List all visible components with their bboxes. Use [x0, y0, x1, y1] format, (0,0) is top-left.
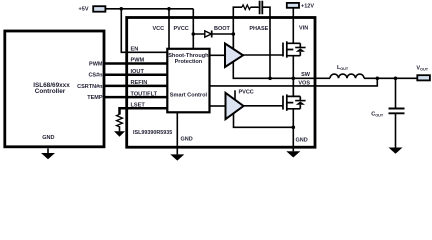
wire EN drop — [121, 9, 167, 53]
node SW junction — [292, 77, 296, 81]
wire TOUT/FLT — [104, 96, 167, 99]
wire Cout drop — [395, 78, 397, 107]
svg-text:CS#n: CS#n — [88, 73, 103, 79]
svg-text:GND: GND — [296, 138, 308, 144]
controller box ISL68/69xxx — [5, 31, 104, 147]
svg-text:OUT: OUT — [340, 67, 349, 71]
wire BOOT feed to upper driver — [232, 34, 234, 50]
wire BOOT up and bootstrap row — [233, 7, 242, 49]
transistor Q1 high-side — [283, 41, 300, 57]
wire upper driver return to SW — [233, 61, 315, 78]
wire lower driver return — [234, 114, 294, 128]
svg-text:CSRTN#n: CSRTN#n — [77, 84, 103, 90]
capacitor Cout — [389, 109, 405, 114]
svg-text:BOOT: BOOT — [214, 26, 231, 32]
diode boot — [205, 31, 212, 37]
svg-text:+5V: +5V — [79, 6, 89, 12]
svg-text:PWM: PWM — [131, 58, 145, 64]
svg-text:TEMP: TEMP — [87, 95, 103, 101]
wire LSET — [120, 108, 168, 114]
wire Lout to Vout — [364, 77, 417, 79]
resistor Rset — [117, 114, 123, 127]
wire PVCC to boot diode — [193, 33, 233, 35]
node BOOT — [232, 32, 236, 36]
svg-text:SW: SW — [301, 72, 311, 78]
svg-text:TOUT/FLT: TOUT/FLT — [131, 91, 158, 97]
svg-text:PVCC: PVCC — [174, 26, 189, 32]
wire Q2 drain to SW — [292, 78, 294, 96]
svg-text:Controller: Controller — [35, 88, 66, 95]
svg-text:+12V: +12V — [301, 4, 314, 10]
wire to gnd — [119, 126, 121, 131]
pin PVCC stub (lower driver) — [234, 90, 236, 100]
svg-text:VCC: VCC — [153, 26, 165, 32]
wire PWM — [104, 62, 167, 65]
node EN tap — [120, 7, 124, 11]
svg-text:VIN: VIN — [299, 26, 308, 32]
op-amp upper gate driver — [225, 44, 243, 68]
op-amp lower gate driver — [226, 93, 244, 119]
node PVCC-boot — [192, 32, 196, 36]
wire PVCC — [192, 9, 194, 49]
node Cout tap — [394, 77, 398, 81]
wire block to upper driver — [210, 54, 226, 56]
node PHASE-SW — [268, 77, 272, 81]
wire REFIN — [104, 85, 167, 88]
svg-text:OUT: OUT — [375, 113, 384, 117]
node VCC tap — [167, 7, 171, 11]
transistor Q2 low-side — [283, 94, 300, 110]
driver box ISL99390 — [127, 18, 315, 148]
wire +5V rail — [105, 8, 193, 10]
ground (power) — [286, 151, 300, 157]
wire block GND — [176, 112, 178, 154]
svg-text:PHASE: PHASE — [249, 26, 268, 32]
wire block to lower driver — [210, 105, 226, 107]
resistor Rboot — [242, 5, 251, 10]
wire upper gate — [243, 54, 283, 56]
diode body Q1 — [296, 48, 305, 51]
wire VOS — [210, 78, 378, 86]
svg-text:Smart Control: Smart Control — [170, 92, 208, 98]
shoot-through / smart control block U — [167, 49, 209, 113]
wire VCC — [168, 9, 170, 49]
ground (driver) — [170, 154, 184, 160]
diode body Q2 — [296, 102, 305, 105]
ground (Rset) — [114, 131, 125, 137]
svg-text:Protection: Protection — [175, 59, 203, 65]
svg-text:EN: EN — [131, 47, 139, 53]
svg-text:GND: GND — [181, 137, 193, 143]
ground (controller) — [47, 148, 49, 153]
svg-text:OUT: OUT — [420, 67, 429, 71]
inductor Lout — [315, 77, 330, 79]
wire Cout to gnd — [395, 113, 397, 147]
svg-text:Shoot-Through: Shoot-Through — [168, 53, 209, 59]
svg-text:IOUT: IOUT — [131, 69, 145, 75]
node VOS tap — [376, 77, 380, 81]
svg-text:ISL99390R5935: ISL99390R5935 — [133, 130, 172, 136]
svg-text:PWM: PWM — [89, 61, 103, 67]
wire Q1 source to SW — [292, 55, 294, 97]
node return-source — [292, 126, 296, 130]
capacitor Cboot — [260, 1, 263, 15]
wire VIN drain — [292, 8, 294, 44]
svg-text:REFIN: REFIN — [131, 80, 148, 86]
svg-text:PVCC: PVCC — [239, 90, 254, 96]
ground (Cout) — [389, 148, 403, 154]
wire Q2 source to GND — [292, 109, 294, 152]
svg-text:GND: GND — [42, 135, 54, 141]
wire cap to PHASE drop — [263, 7, 270, 78]
+12V terminal — [287, 3, 299, 8]
wire lower gate — [244, 105, 284, 107]
wire IOUT — [104, 73, 167, 76]
